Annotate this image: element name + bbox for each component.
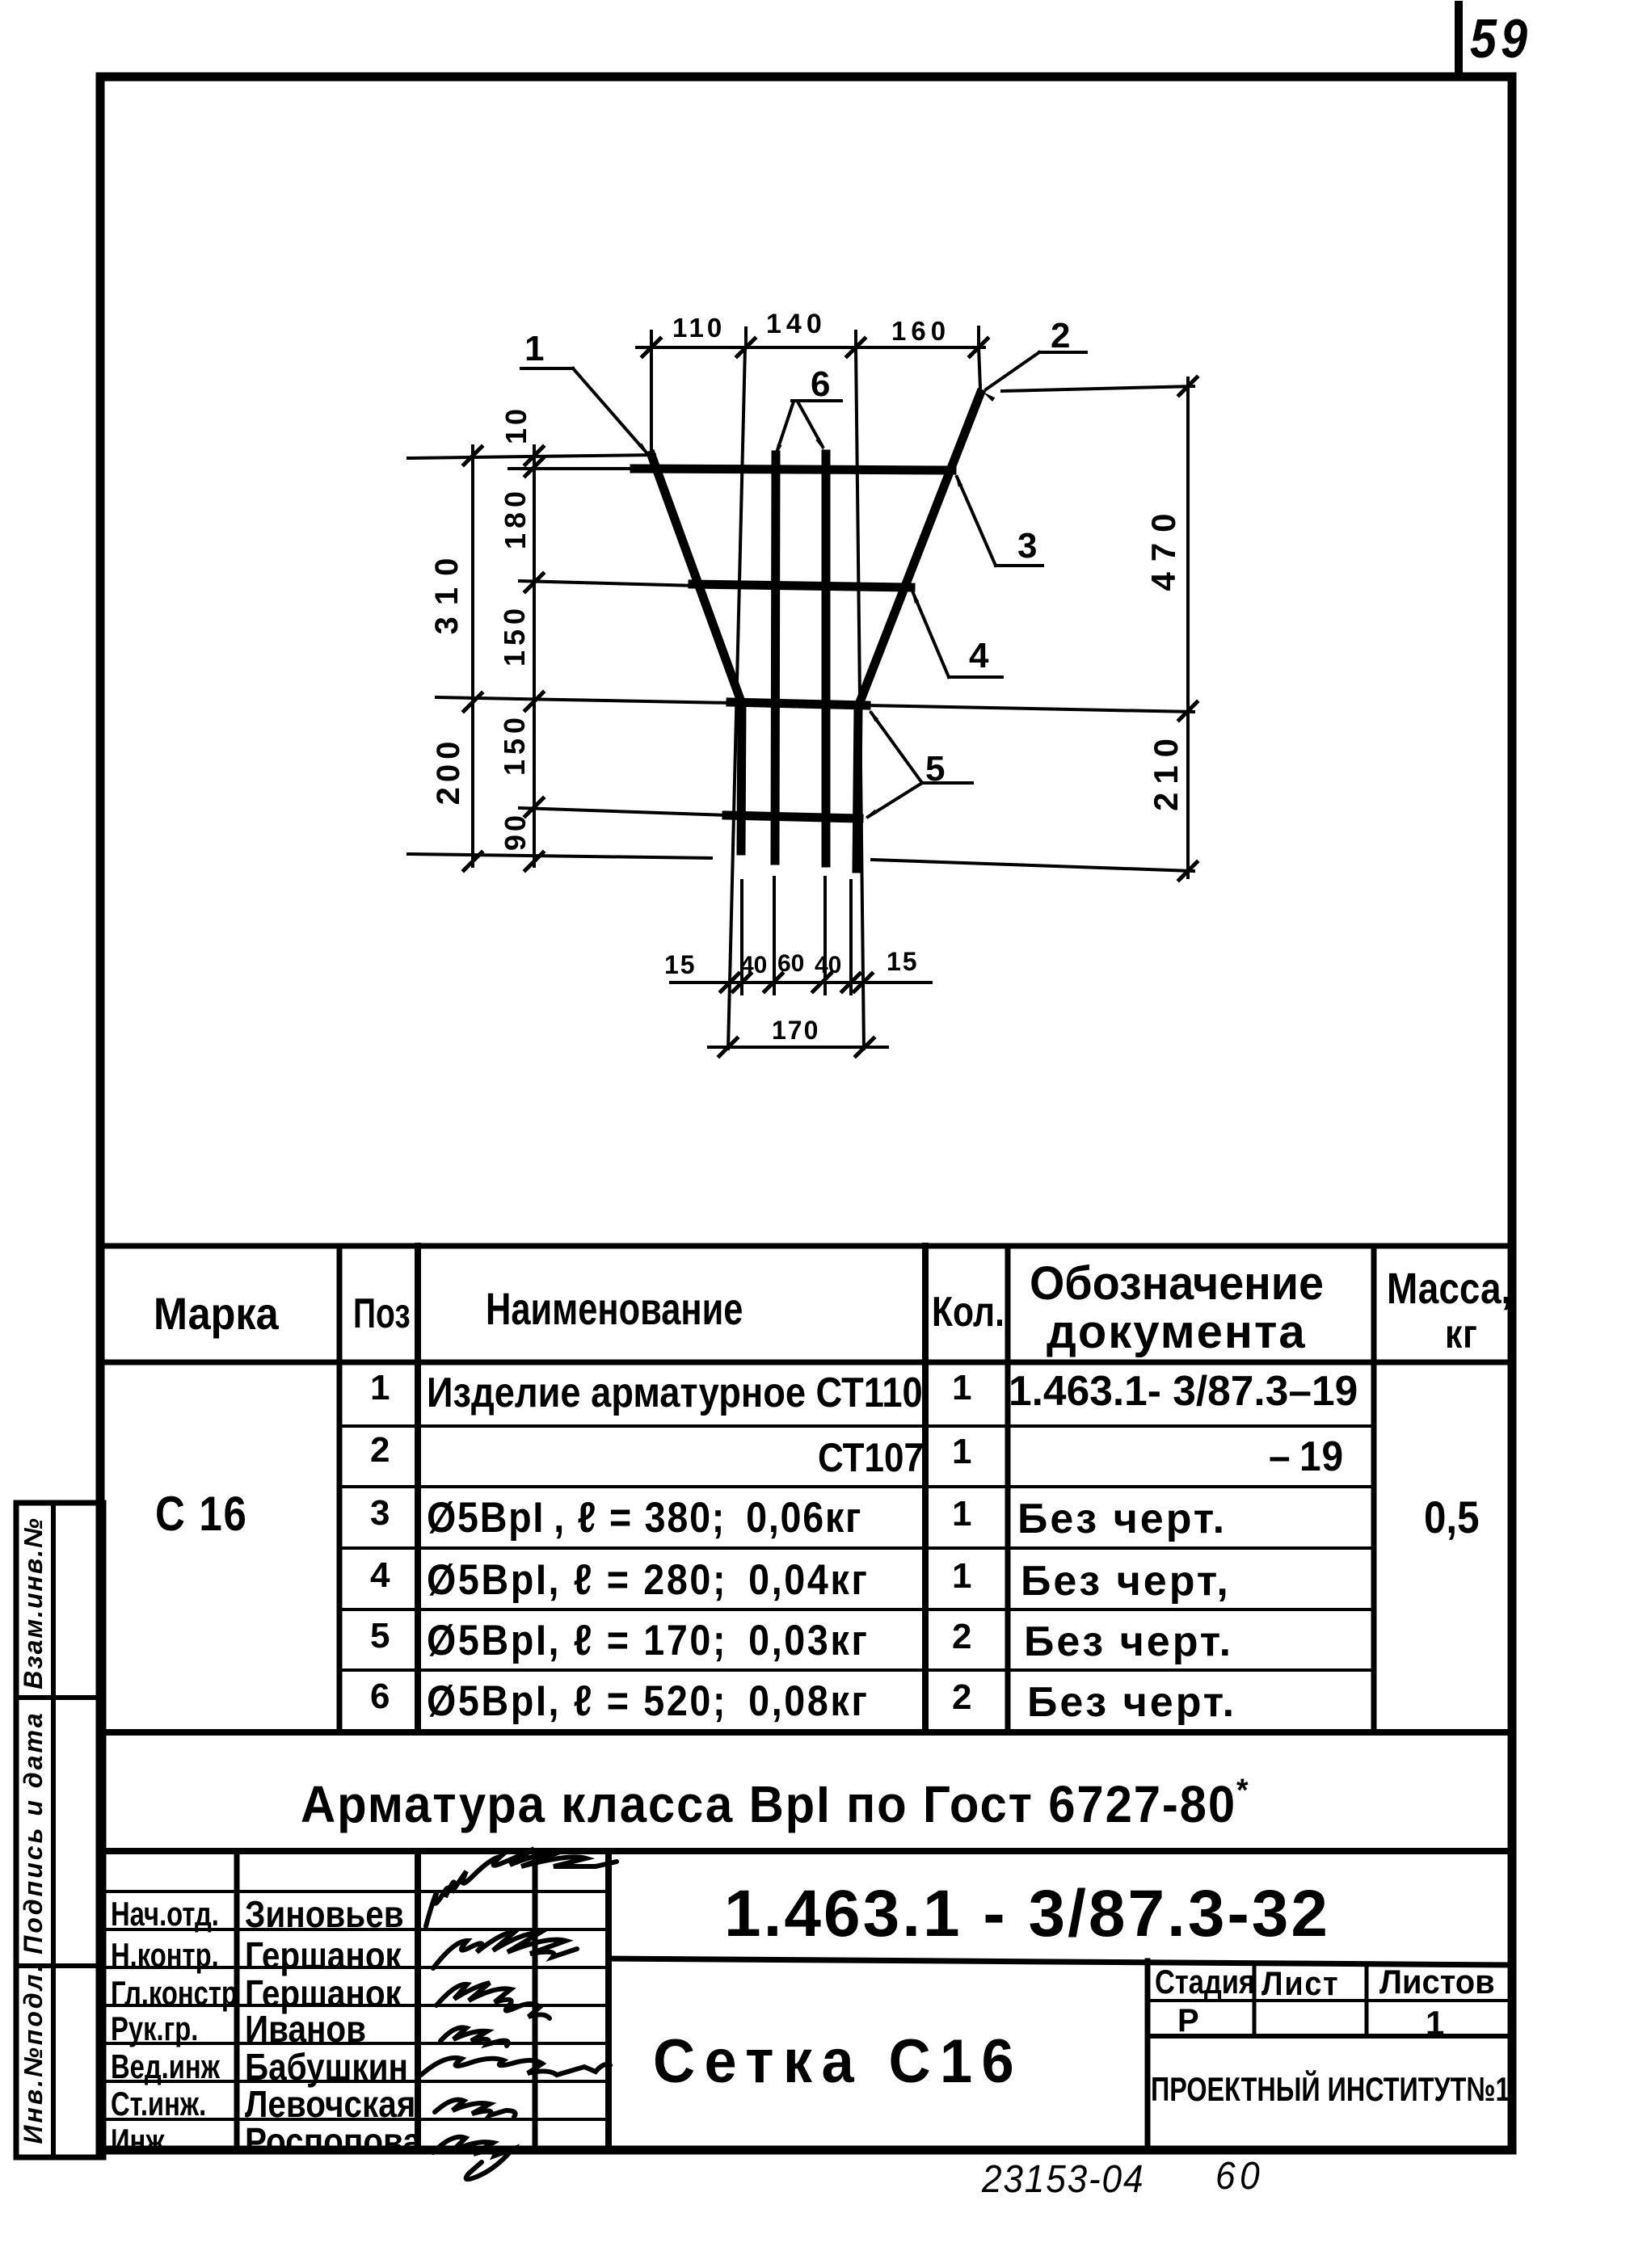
left dim tick 8 — [525, 798, 543, 816]
signature squiggle row 6 — [435, 2100, 516, 2117]
left dim tick 3 — [464, 852, 482, 870]
poz 4 — [370, 1558, 390, 1593]
signature squiggle row 3 — [436, 1983, 550, 2018]
dim label 200 — [432, 737, 465, 806]
stadia header underline — [1148, 1999, 1512, 2002]
dim-170 tick left — [719, 1038, 737, 1056]
top dim tick c — [847, 339, 865, 356]
long extension line right (tick c to bottom) — [856, 347, 864, 1049]
stadia value P — [1177, 2005, 1199, 2037]
extent line at bar5a level right part — [866, 705, 1194, 712]
bottom extension bar6b — [823, 877, 827, 994]
left stamp outer box — [16, 1503, 103, 2157]
long extension line left (tick b to bottom) — [728, 347, 745, 1049]
left outer dimension line (310/200) — [471, 446, 474, 866]
bottom extension bar2 — [849, 881, 853, 994]
obozn row3 — [1017, 1498, 1227, 1540]
parts table column line Kol|Oboznachenie — [1005, 1246, 1011, 1732]
top dimension line — [637, 346, 984, 349]
stamp label podpis — [20, 1710, 46, 1954]
leader pos 4 underline — [949, 675, 1002, 679]
leader pos 1 arrow — [638, 443, 649, 455]
dim label 150a — [500, 604, 529, 667]
bottom dim tick 4 — [813, 974, 831, 991]
dim label 160 — [891, 318, 950, 344]
left dim tick 1 — [464, 447, 482, 465]
leader pos 1 line — [573, 368, 646, 452]
right dim tick top — [1179, 377, 1197, 395]
dim label 210 — [1149, 730, 1183, 811]
header Kol — [932, 1291, 1005, 1333]
dim label 15 right — [887, 949, 919, 974]
bar 1 (left bent bar CT110) — [651, 455, 742, 851]
kol row5 — [952, 1619, 971, 1655]
sheet border frame — [100, 77, 1512, 2150]
listov header — [1379, 1965, 1495, 1999]
kol row1 — [952, 1370, 971, 1406]
dim label 15 left — [664, 952, 697, 978]
bottom dimension line 170 — [709, 1046, 887, 1049]
bar 4 (middle horizontal, Ø5BpI l=280) — [693, 584, 911, 587]
signature row line 2 — [101, 1928, 609, 1931]
bar 5b (bottom horizontal, Ø5BpI l=170) — [727, 815, 859, 818]
kol row6 — [952, 1680, 971, 1715]
kol row2 — [952, 1434, 971, 1470]
parts table header bottom line — [101, 1360, 1512, 1365]
page number 59 — [1470, 11, 1531, 66]
left dim tick 2 — [464, 693, 482, 711]
bar 5a (third horizontal, Ø5BpI l=170) — [731, 702, 866, 705]
doc number — [724, 1881, 1330, 1947]
extent line at mesh bottom right part — [872, 860, 1194, 871]
stadia column line 1 — [1253, 1963, 1257, 2036]
header kg — [1445, 1314, 1478, 1354]
poz 6 — [370, 1679, 390, 1715]
dim-170 tick right — [856, 1038, 874, 1056]
dim label 110 — [672, 314, 725, 341]
parts table top line — [101, 1243, 1512, 1249]
leader pos 5 underline — [922, 781, 972, 785]
poz 2 — [370, 1433, 390, 1468]
dim label 470 — [1147, 503, 1181, 591]
listov value 1 — [1426, 2006, 1444, 2040]
sig row 6 name — [245, 2085, 415, 2123]
bottom extension bar1 — [740, 881, 743, 994]
leader pos 2 line — [986, 352, 1039, 389]
dim label 10 — [502, 406, 531, 444]
obozn row1 — [1009, 1370, 1358, 1412]
parts table column line Oboznachenie|Massa — [1371, 1246, 1377, 1732]
title block signature column line 4 — [605, 1851, 612, 2150]
sig row 3 role — [111, 1976, 238, 2010]
leader pos 3 line — [957, 477, 996, 566]
header Marka — [154, 1291, 279, 1336]
leader pos 5 arrow a — [869, 709, 878, 722]
stadia header — [1155, 1965, 1255, 1999]
signature squiggle row 1 — [426, 1849, 617, 1926]
left dim tick 7 — [525, 692, 543, 710]
poz 1 — [370, 1370, 390, 1406]
kol row4 — [952, 1559, 971, 1594]
right dim tick bottom — [1179, 862, 1197, 880]
stamp label inv — [20, 1963, 46, 2144]
cell C16 — [155, 1490, 248, 1538]
pos label 2 — [1051, 318, 1070, 354]
extent line at mesh bottom left part — [408, 854, 711, 858]
leader pos 5 arrow b — [865, 810, 878, 818]
extent line at mesh top — [408, 455, 655, 458]
sig row 5 role — [111, 2050, 220, 2084]
sig row 1 name — [245, 1896, 404, 1933]
leader pos 5 line a — [871, 713, 922, 783]
sig row 4 name — [245, 2010, 366, 2047]
left stamp divider 2 — [16, 1963, 103, 1968]
top dim tick b — [737, 339, 755, 356]
sig row 1 role — [111, 1897, 219, 1931]
bottom dim tick 2 — [733, 974, 751, 991]
parts table column line Poz|Naimenovanie — [415, 1246, 421, 1732]
top dim tick a — [642, 339, 660, 356]
leader pos 4 arrow — [912, 590, 919, 604]
bar 3 (top horizontal, Ø5BpI l=380) — [634, 469, 952, 470]
left stamp divider 1 — [16, 1695, 103, 1700]
sig row 6 role — [111, 2087, 206, 2121]
top dim stub c — [854, 331, 857, 347]
leader pos 6 line a — [777, 402, 794, 452]
dim label 150b — [500, 713, 529, 776]
list header — [1261, 1967, 1339, 2001]
row4 name — [427, 1559, 870, 1601]
leader pos 6 arrow a — [775, 444, 782, 457]
dim label 90 — [501, 812, 530, 851]
extent line at bar4 level — [520, 581, 697, 586]
sig row 7 name — [245, 2123, 421, 2160]
leader pos 5 line b — [868, 783, 922, 817]
parts table row line 5 — [339, 1668, 1374, 1672]
header Massa — [1387, 1267, 1511, 1311]
dim label 180 — [501, 486, 530, 549]
signature row line 5 — [101, 2042, 609, 2045]
pos label 1 — [524, 331, 544, 367]
parts table row line 1 — [339, 1424, 1374, 1428]
header dokumenta — [1047, 1309, 1307, 1356]
stadia values underline — [1148, 2034, 1512, 2039]
signature squiggle row 5 — [421, 2058, 610, 2075]
dim label 140 — [766, 310, 827, 338]
pos label 6 — [811, 367, 830, 402]
signature squiggle row 2 — [433, 1931, 577, 1968]
dim label 60 — [777, 952, 804, 976]
parts table row line 3 — [339, 1546, 1374, 1550]
header Oboznachenie — [1030, 1260, 1324, 1307]
title block signature column line 3 — [533, 1851, 538, 2150]
left stamp inner vertical — [51, 1503, 56, 2157]
stamp label vzam — [20, 1517, 46, 1689]
title block signature column line 1 — [234, 1851, 240, 2150]
obozn row5 — [1024, 1621, 1233, 1663]
extent line at bar2 top level — [1002, 386, 1194, 391]
stadia column line 2 — [1365, 1963, 1369, 2036]
footer 23153-04 — [982, 2161, 1144, 2199]
cell massa 0,5 — [1424, 1495, 1480, 1540]
signature row line 6 — [101, 2080, 609, 2083]
top dim stub a — [650, 331, 653, 362]
left dim tick 5 — [525, 458, 543, 476]
signature row line 1 — [101, 1890, 609, 1893]
title block divider under doc number — [609, 1959, 1512, 1965]
pos label 3 — [1017, 528, 1037, 564]
sig row 3 name — [245, 1975, 402, 2012]
sig row 5 name — [245, 2048, 408, 2085]
sig row 4 role — [111, 2012, 198, 2046]
left dim tick 4 — [525, 447, 543, 465]
bottom dim tick 6 — [854, 974, 872, 991]
signature row line 3 — [101, 1966, 609, 1969]
dim label 40a — [740, 953, 767, 978]
left inner dimension line (10/180/150/150/90) — [533, 446, 536, 866]
header Naimenovanie — [486, 1286, 743, 1332]
poz 3 — [370, 1496, 390, 1531]
pos label 4 — [969, 638, 988, 674]
sig row 2 role — [111, 1938, 219, 1972]
parts table bottom line — [101, 1729, 1512, 1736]
dim label 40b — [815, 953, 841, 978]
leader pos 6 underline — [792, 399, 841, 402]
leader pos 3 arrow — [955, 473, 962, 487]
extent line at bar5a level (to right dim) — [436, 697, 732, 703]
leader pos 2 arrow — [983, 392, 995, 402]
leader pos 6 arrow b — [815, 438, 824, 451]
kol row3 — [952, 1496, 971, 1532]
bottom dim tick 1 — [721, 974, 739, 991]
title Setka C16 — [653, 2031, 1023, 2093]
obozn row2 — [1269, 1436, 1344, 1478]
leader pos 2 underline — [1039, 351, 1086, 354]
top dim stub b — [744, 328, 748, 347]
org name — [1151, 2072, 1510, 2106]
signature row line 7 — [101, 2118, 609, 2121]
right dimension line — [1186, 378, 1190, 877]
title block top line — [101, 1848, 1512, 1854]
sig row 7 role — [111, 2124, 172, 2158]
signature squiggle row 7 — [433, 2137, 512, 2179]
left dim tick 6 — [525, 574, 543, 591]
title block signature column line 2 — [415, 1851, 421, 2150]
bar 2 (right bent bar CT107) — [857, 393, 980, 869]
poz 5 — [370, 1618, 390, 1654]
dim label 310 — [431, 547, 463, 635]
extension line tick d to bar2 top — [979, 347, 980, 388]
parts table column line Naimenovanie|Kol — [922, 1246, 929, 1732]
dim label 170 — [772, 1017, 819, 1043]
sig row 2 name — [245, 1937, 402, 1974]
row1 name — [427, 1372, 923, 1414]
bottom extension bar6a — [773, 877, 776, 994]
bar 6a (left vertical, Ø5BpI l=520) — [775, 455, 776, 860]
bar 6b (right vertical, Ø5BpI l=520) — [822, 454, 831, 863]
leader pos 1 underline — [521, 367, 573, 370]
signature row line 4 — [101, 2004, 609, 2007]
row5 name — [427, 1619, 870, 1662]
header Poz — [353, 1293, 411, 1335]
top dim tick d — [970, 339, 988, 356]
leader pos 3 underline — [996, 564, 1042, 567]
row3 name — [427, 1496, 862, 1539]
row6 name — [427, 1680, 870, 1723]
extent line at bar5b level — [520, 808, 728, 815]
obozn row6 — [1027, 1681, 1236, 1723]
bottom dimension line 15/40/60/40/15 — [671, 981, 931, 984]
row2 name — [818, 1437, 924, 1478]
left dim tick 9 — [525, 852, 543, 870]
footer 60 — [1215, 2157, 1264, 2196]
obozn row4 — [1021, 1560, 1231, 1602]
top dim stub d — [977, 327, 980, 347]
extension line from tick a to bar1 top — [650, 347, 653, 451]
parts table row line 2 — [339, 1485, 1374, 1488]
bottom dim tick 5 — [842, 974, 860, 991]
note armatura — [301, 1774, 1249, 1830]
bottom dim tick 3 — [764, 974, 782, 991]
page-number tick mark — [1455, 5, 1463, 77]
parts table row line 4 — [339, 1608, 1374, 1611]
right dim tick middle — [1179, 702, 1197, 720]
leader pos 6 line b — [798, 402, 823, 447]
pos label 5 — [925, 751, 945, 787]
title block vertical Setka|Stadia — [1145, 1961, 1151, 2150]
extent line at bar3 level — [509, 467, 638, 470]
leader pos 4 line — [913, 593, 949, 677]
signature squiggle row 4 — [440, 2027, 508, 2046]
parts table column line Marka|Poz — [337, 1246, 343, 1732]
